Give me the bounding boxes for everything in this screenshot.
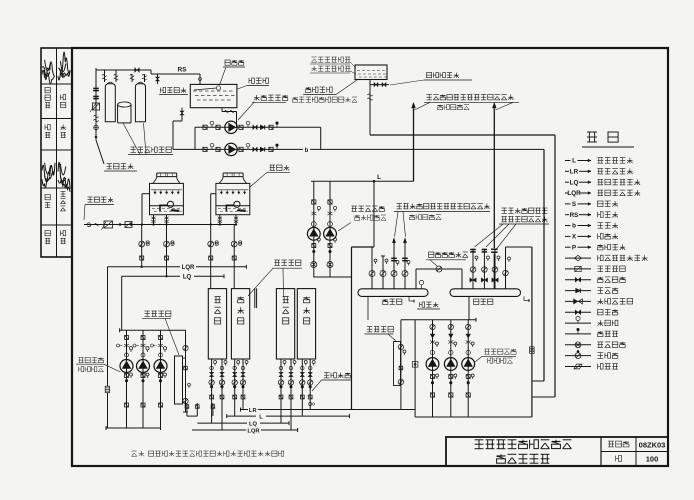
label 水处理器 left xyxy=(145,311,171,316)
secondary pump column 冷水次级泵 xyxy=(313,181,315,277)
cooling tower body xyxy=(216,183,250,214)
riser 1 chilled supply to high zone with arrow xyxy=(412,103,416,108)
tower outlet drop xyxy=(166,215,168,225)
legend title 图例 xyxy=(587,132,618,142)
legend line type b 补水管 xyxy=(565,225,571,227)
tower column with butterfly and gate valve xyxy=(233,225,235,289)
softener riser with unions xyxy=(104,70,106,82)
legend symbol 可曲绕橡胶接头 xyxy=(565,257,591,259)
tank left drain with valve xyxy=(181,108,183,121)
svg-text:LR: LR xyxy=(570,169,579,176)
flow device on vA xyxy=(530,347,535,354)
label 页 xyxy=(616,456,622,462)
junction dot on S line xyxy=(119,223,121,225)
label 冷水次级泵（变频泵） xyxy=(352,206,385,211)
tower sprinkler header xyxy=(151,189,182,191)
chilled supply header L xyxy=(311,180,414,182)
butterfly pair xyxy=(141,344,146,347)
make-up supply line S xyxy=(84,224,237,226)
expansion tank hatch xyxy=(357,70,360,72)
rows left connector xyxy=(194,127,196,149)
distributor feed branch valve xyxy=(369,271,375,277)
legend line type L 冷水送水管 xyxy=(565,160,571,162)
cooling return LQR line xyxy=(108,266,181,268)
chiller connection column xyxy=(234,359,236,416)
RS soft water pipe xyxy=(151,73,200,75)
basin makeup feed tower1 xyxy=(141,194,143,225)
chiller vessel 蒸发器 xyxy=(231,289,249,359)
legend line type S 给水管 xyxy=(565,203,571,205)
discharge valve xyxy=(159,403,163,407)
svg-text:S: S xyxy=(572,201,576,208)
cooling water pump column xyxy=(160,330,162,428)
strip signature cell 4 xyxy=(42,163,55,182)
cooling tower fan stack xyxy=(157,172,177,174)
feed drop from L header xyxy=(373,181,375,247)
riser 2 return from high zone with arrow xyxy=(492,103,496,108)
collector to primary suction header xyxy=(468,296,470,319)
expansion/makeup trunk P to right xyxy=(370,134,555,136)
legend symbol 手动蝶阀 xyxy=(565,279,591,281)
gauge on supply xyxy=(94,125,99,130)
tower outlet drop xyxy=(153,215,155,225)
label 蝶阀（常开） xyxy=(429,252,468,257)
title block outline xyxy=(446,437,668,466)
junction dot tower header xyxy=(130,223,132,225)
label 全自动软水器 xyxy=(131,147,172,152)
cooling pump suction header xyxy=(120,329,186,331)
primary discharge manifold xyxy=(415,416,532,418)
tower basin pipe elbow xyxy=(226,205,233,211)
leaders to collector branches xyxy=(475,224,504,247)
distributor branch 2 xyxy=(382,256,384,289)
junction dots on LQ LQR lines xyxy=(141,266,143,268)
legend symbol 电动蝶阀 xyxy=(565,344,591,346)
bypass with butterfly 蝶阀常开 xyxy=(415,269,417,289)
water treatment device 2 xyxy=(400,320,402,410)
left strip row divider xyxy=(41,224,72,226)
leader to riser2 xyxy=(496,102,514,110)
legend symbol 压力表 xyxy=(565,322,591,324)
chiller connection column xyxy=(290,359,292,430)
softener riser with unions xyxy=(115,70,117,82)
tower basin pipe elbow xyxy=(160,205,167,211)
standpipe between chiller pairs xyxy=(254,288,256,308)
pump discharge valves xyxy=(239,147,243,151)
collector vessel 集水器 xyxy=(450,289,521,297)
chiller connection column xyxy=(211,359,213,423)
legend symbol 温度计 xyxy=(565,333,591,335)
collector branch xyxy=(483,249,485,289)
label 集水器 xyxy=(474,299,493,304)
title text line2 系统原理图 xyxy=(497,454,550,463)
junction dot L header xyxy=(373,180,375,182)
svg-text:LQ: LQ xyxy=(249,422,258,428)
cooling tower body xyxy=(150,183,184,214)
cooling water pump xyxy=(120,360,133,373)
softener cylinder 1 xyxy=(105,84,115,122)
line LR bottom xyxy=(227,415,256,417)
cooling water pump column xyxy=(142,330,144,428)
title text line1 空调冷水（二次泵） xyxy=(475,440,572,449)
junction dot xyxy=(95,136,97,138)
cooling water pump column xyxy=(126,330,128,428)
leader lines to softener xyxy=(123,123,140,155)
line LQ bottom xyxy=(197,422,247,424)
label 软水箱 xyxy=(249,78,268,83)
S line check valve xyxy=(95,224,99,226)
svg-text:P: P xyxy=(572,244,576,251)
strip text cell 3 xyxy=(45,125,50,130)
S line backflow preventer xyxy=(104,221,113,228)
discharge valve xyxy=(125,403,129,407)
label 二通阀 2 xyxy=(410,215,442,220)
tower sprinkler header xyxy=(217,189,248,191)
label 接给水管 lower xyxy=(88,197,114,202)
leaders to branches xyxy=(395,212,399,238)
cooling water pump xyxy=(137,360,150,373)
label 接至低区中央空调冷水末端装置 xyxy=(397,204,490,209)
note 注：是否设置全自动软水器需根据当地水质确定 xyxy=(132,451,144,456)
secondary pump xyxy=(307,227,320,240)
cooling tower fan stack xyxy=(223,172,243,174)
svg-text:L: L xyxy=(572,158,576,165)
drawing frame border xyxy=(72,48,668,466)
secondary suction header from decoupler xyxy=(313,276,351,278)
strip text cell 2 xyxy=(45,88,50,93)
collector branch xyxy=(472,249,474,289)
left strip column divider xyxy=(56,48,58,257)
sampling branch 软水取样 xyxy=(157,74,159,84)
S line strainer xyxy=(125,222,132,228)
legend line type LR 冷水回水管 xyxy=(565,170,569,172)
jog to distributor feed branch xyxy=(372,246,374,248)
label 或落地膨胀罐定压 xyxy=(293,97,358,102)
float ball valve xyxy=(216,86,220,90)
electric butterfly valve xyxy=(311,262,317,268)
butterfly pair with gauge xyxy=(328,212,333,215)
legend symbol 止回阀 xyxy=(565,290,591,292)
primary pump xyxy=(462,358,475,371)
legend symbol 截止阀 xyxy=(565,311,591,313)
check valve xyxy=(260,147,264,151)
butterfly pair with gauge xyxy=(311,212,316,215)
LQ down at left xyxy=(121,276,123,330)
tank outlet to pumps xyxy=(221,108,223,112)
label 冷水初级泵 二用一备 xyxy=(485,349,517,354)
chiller vessel 冷凝器 xyxy=(276,289,294,359)
tower outlet drop xyxy=(219,215,221,225)
pump discharge valves xyxy=(239,125,243,129)
primary pump column 冷水初级泵 xyxy=(450,320,452,417)
chiller connection column xyxy=(221,359,223,430)
legend line type X 循环管 xyxy=(565,235,571,237)
decoupler run xyxy=(352,246,375,248)
softener cylinder 2 xyxy=(135,84,145,122)
overflow pipe with valves xyxy=(370,84,390,86)
cooling supply LQ line xyxy=(122,275,180,277)
distributor drain downpipe xyxy=(367,296,369,320)
label 冷却塔 xyxy=(270,165,290,170)
makeup pump xyxy=(225,121,237,133)
svg-text:RS: RS xyxy=(570,212,579,219)
chiller vessel 蒸发器 xyxy=(297,289,315,359)
pipe elbow to label 接给水管 xyxy=(96,140,104,164)
wavy union pair xyxy=(94,116,99,118)
primary pump column 冷水初级泵 xyxy=(467,320,469,417)
distributor gauge xyxy=(421,285,423,289)
tower basin pump circle xyxy=(167,201,173,207)
tower column with butterfly and gate valve xyxy=(166,225,168,277)
flow switch 水流开关 device xyxy=(309,402,312,405)
chiller connection column xyxy=(280,359,282,423)
flex joint on LQR downpipe xyxy=(105,386,110,393)
label 接高区中央空调冷水末端装置 xyxy=(427,95,514,100)
label 软水取样 xyxy=(161,88,187,93)
svg-text:08ZK03: 08ZK03 xyxy=(639,441,666,450)
flange pair on supply xyxy=(93,87,99,89)
title block divider vertical 2 xyxy=(635,437,637,466)
label 水处理器 right xyxy=(367,327,393,332)
basin dark smear xyxy=(237,209,246,212)
label 图集号 xyxy=(608,441,629,447)
label 冷水机组 xyxy=(275,260,301,265)
basin makeup feed tower2 xyxy=(210,194,212,225)
secondary pump column 冷水次级泵 xyxy=(329,181,331,277)
label 接自低区中央空调冷水末端装置 xyxy=(502,208,548,213)
discharge valve xyxy=(141,403,145,407)
leaders to chillers xyxy=(248,268,273,296)
svg-text:LQR: LQR xyxy=(182,265,195,271)
water treatment device 1 水处理器 xyxy=(185,330,187,412)
primary pump suction header xyxy=(401,319,476,321)
leader to tank xyxy=(336,80,357,95)
svg-text:100: 100 xyxy=(646,455,659,464)
makeup pump valve set xyxy=(203,125,207,129)
svg-text:L: L xyxy=(377,174,381,181)
legend symbol 流量计 xyxy=(565,366,591,368)
electric butterfly valve xyxy=(327,262,333,268)
legend symbol 平衡阀 xyxy=(565,355,591,357)
collector right branch to decoupler xyxy=(505,247,507,289)
cooling water pump xyxy=(154,360,167,373)
distributor zone branch with arrow xyxy=(404,243,406,289)
pressure reducing valve xyxy=(93,103,100,110)
cooling pump bottom manifold xyxy=(106,427,161,429)
legend line type LQ 冷却水送水管 xyxy=(565,181,569,183)
stub columns near chiller bottom xyxy=(186,403,188,416)
check and butterfly xyxy=(449,334,454,338)
svg-text:b: b xyxy=(572,223,576,230)
tower basin pump circle xyxy=(234,201,240,207)
softener riser with unions xyxy=(131,74,133,82)
check and butterfly xyxy=(466,334,471,338)
primary pump xyxy=(444,358,457,371)
riser 2 flange pair xyxy=(491,248,498,250)
secondary pump xyxy=(324,227,337,240)
legend line type LQR 冷却水回水管 xyxy=(565,192,568,194)
junction dots on S header xyxy=(141,224,143,226)
title block divider vertical 1 xyxy=(600,437,602,466)
chilled supply line L bottom xyxy=(241,409,249,411)
cylinder 2 cap xyxy=(138,82,144,84)
LQR down at left xyxy=(107,267,109,386)
line LQR bottom xyxy=(192,429,246,431)
label 分水器 xyxy=(383,299,402,304)
distributor vessel 分水器 xyxy=(358,289,428,297)
svg-text:L: L xyxy=(259,415,263,421)
valve on top header xyxy=(135,68,137,73)
tank water level hatching xyxy=(193,90,197,92)
label 浮球阀 xyxy=(225,60,244,65)
trunk vertical vC right xyxy=(554,135,556,397)
left title strip outline xyxy=(41,48,72,257)
strip text cell 6 xyxy=(45,231,50,236)
left strip row divider xyxy=(41,118,72,120)
label 二通阀 xyxy=(438,105,470,110)
label 接给水管 upper xyxy=(107,164,134,169)
softener top header pipe xyxy=(96,69,151,71)
legend symbol 水过滤器 xyxy=(565,268,591,270)
label 膨胀水箱 xyxy=(306,87,333,92)
butterfly pair xyxy=(158,344,163,347)
label 溢流放水管 xyxy=(427,73,459,78)
svg-text:LQR: LQR xyxy=(247,429,260,435)
chiller vessel 冷凝器 xyxy=(208,289,226,359)
primary pump column 冷水初级泵 xyxy=(432,320,434,417)
tower column with butterfly and gate valve xyxy=(210,225,212,289)
distributor zone branch with arrow xyxy=(393,243,395,289)
tower basin water line xyxy=(150,205,184,207)
makeup pump row 2 pipe b xyxy=(173,148,303,150)
legend symbol 倒流防止器 xyxy=(565,300,591,302)
legend line type RS 软水管 xyxy=(565,214,569,216)
label 冷却水泵 二用一备 xyxy=(79,358,104,363)
supply pipe vertical left xyxy=(95,68,97,140)
collector branch xyxy=(494,249,496,289)
chiller connection column xyxy=(301,359,303,416)
strip signature cell 1 xyxy=(42,62,55,80)
makeup pump row 1 pipe xyxy=(195,126,321,128)
basin dark smear xyxy=(171,209,180,212)
check valve xyxy=(260,125,264,129)
title block row divider xyxy=(601,451,668,453)
left strip row divider xyxy=(41,83,72,85)
check and butterfly xyxy=(430,334,435,338)
leader to riser1 xyxy=(415,102,431,110)
tower basin water line xyxy=(216,205,250,207)
svg-text:S: S xyxy=(87,222,91,229)
makeup pump valve set xyxy=(203,147,207,151)
tower column with butterfly and gate valve xyxy=(141,225,143,267)
distributor drain 放水管 xyxy=(408,296,410,301)
softener riser with unions xyxy=(144,74,146,82)
svg-text:LQ: LQ xyxy=(570,179,579,186)
svg-text:b: b xyxy=(305,148,309,154)
expansion drop pipe P xyxy=(369,80,371,136)
cylinder 1 cap xyxy=(108,82,114,84)
tower outlet drop xyxy=(235,215,237,225)
discharge gate valve xyxy=(269,125,273,129)
svg-text:LR: LR xyxy=(249,408,258,414)
collector drain xyxy=(523,296,525,300)
svg-text:LQ: LQ xyxy=(183,275,192,281)
makeup trunk b vertical vB xyxy=(543,149,545,381)
chiller connection column xyxy=(242,359,244,410)
discharge gate valve xyxy=(269,147,273,151)
salt crock cylinder 3 xyxy=(118,102,131,107)
legend line type P 膨胀水管 xyxy=(565,246,571,248)
left strip row divider xyxy=(41,187,72,189)
primary pump xyxy=(426,358,439,371)
soft water tank 软水箱 xyxy=(190,84,237,107)
labels 高水位控制点 低水位控制点 xyxy=(312,57,351,62)
expansion tank 膨胀水箱 xyxy=(355,65,387,80)
decoupler vertical vA xyxy=(531,247,533,417)
makeup pump xyxy=(225,143,237,155)
manifold riser with check xyxy=(414,320,416,417)
strip text cell 5 xyxy=(45,195,50,200)
butterfly pair xyxy=(124,344,129,347)
tank fill pipe from RS xyxy=(199,74,201,84)
header step down xyxy=(150,70,152,74)
svg-text:LQR: LQR xyxy=(567,190,581,197)
row1 to row2 step at right xyxy=(320,127,322,149)
svg-text:RS: RS xyxy=(177,67,187,74)
label 水流开关 xyxy=(324,373,350,378)
chiller connection column xyxy=(309,359,311,410)
left strip row divider xyxy=(41,149,72,151)
label 低区补水泵 xyxy=(254,95,288,100)
